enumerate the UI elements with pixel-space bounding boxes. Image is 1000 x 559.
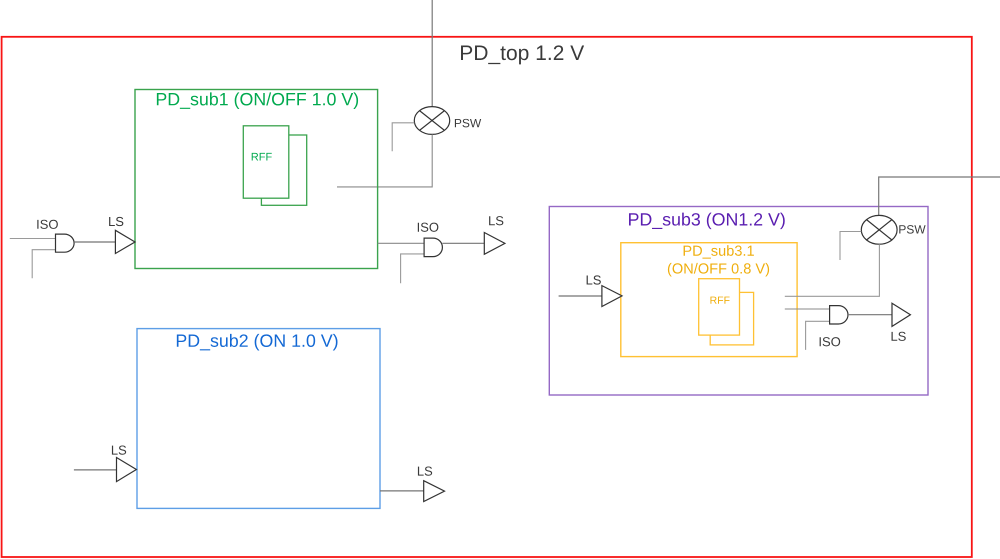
- wire PSW1 output to PD_sub1: [337, 134, 432, 187]
- level shifter LS4: [424, 481, 445, 502]
- label LS (LS4): [418, 467, 432, 476]
- label PD_sub3.1 line 2: [668, 263, 769, 277]
- wire PD_sub3.1 to ISO3 input A: [785, 308, 830, 310]
- wire PSW1 control: [392, 123, 414, 152]
- wire PD_sub2 to LS4: [380, 490, 424, 492]
- wire PD_sub1 to ISO2 input A: [378, 242, 424, 244]
- level shifter LS6: [892, 303, 910, 326]
- wire ISO1 to LS1: [74, 241, 115, 243]
- label PD_sub2 (ON 1.0 V): [177, 334, 338, 351]
- retention flops RFF (PD_sub1): [243, 126, 306, 206]
- power domain PD_sub2: [137, 329, 380, 509]
- label ISO (ISO2): [418, 223, 439, 232]
- label RFF (PD_sub3.1): [710, 297, 729, 304]
- wire into LS5: [559, 295, 602, 297]
- wire ISO3 to LS6: [848, 314, 892, 316]
- level shifter LS3: [117, 458, 137, 482]
- power domain PD_sub3: [549, 207, 928, 396]
- wire ISO3 input B: [806, 321, 830, 350]
- wire PSW2 control: [840, 232, 861, 261]
- power switch PSW2: [861, 215, 897, 244]
- label PD_sub3 (ON1.2 V): [629, 213, 785, 230]
- level shifter LS2: [484, 233, 505, 255]
- wire ISO1 input A: [10, 238, 56, 240]
- label LS (LS6): [892, 332, 906, 341]
- wire VDD feed into PSW2: [879, 177, 1000, 215]
- label ISO (ISO1): [37, 220, 58, 229]
- power domain PD_sub3.1: [621, 243, 797, 357]
- level shifter LS1: [115, 230, 135, 253]
- power switch PSW1: [414, 107, 449, 135]
- label PD_top 1.2 V: [461, 45, 584, 64]
- label PSW (PSW1): [455, 119, 481, 127]
- label PSW (PSW2): [899, 225, 925, 233]
- wire ISO1 input B: [32, 250, 55, 279]
- label ISO (ISO3): [820, 337, 841, 346]
- retention flops RFF (PD_sub3.1): [699, 279, 754, 345]
- wire ISO2 input B: [401, 254, 425, 283]
- wire VDD feed into PSW1: [431, 0, 433, 107]
- isolation cell ISO1: [56, 234, 75, 252]
- label PD_sub1 (ON/OFF 1.0 V): [157, 92, 358, 109]
- isolation cell ISO3: [830, 306, 848, 324]
- label PD_sub3.1 line 1: [684, 245, 754, 258]
- label RFF (PD_sub1): [252, 153, 272, 161]
- level shifter LS5: [602, 286, 622, 307]
- wire into LS3: [74, 469, 117, 471]
- label LS (LS5): [587, 275, 601, 284]
- wire ISO2 to LS2: [442, 242, 484, 244]
- label LS (LS1): [109, 217, 123, 226]
- label LS (LS3): [112, 446, 126, 455]
- wire PSW2 output to PD_sub3.1: [785, 244, 880, 296]
- power domain PD_sub1: [135, 90, 378, 269]
- label LS (LS2): [489, 216, 503, 225]
- isolation cell ISO2: [424, 238, 442, 257]
